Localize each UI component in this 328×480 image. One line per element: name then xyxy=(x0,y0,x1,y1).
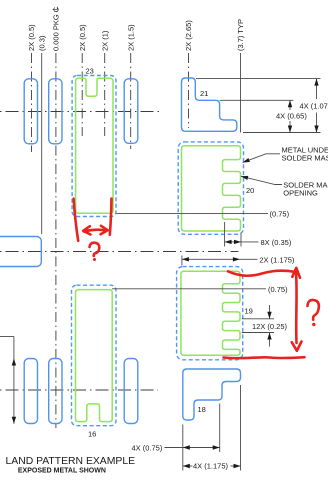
dimension left pad height leader xyxy=(0,337,16,424)
svg-text:21: 21 xyxy=(200,89,208,98)
metal pad 16 (green, notch at bottom) xyxy=(76,290,113,422)
wire: extension line from pad 21 step xyxy=(220,99,294,101)
wire: middle horizontal centerline xyxy=(0,251,239,253)
leader METAL UNDER SOLDER MASK xyxy=(243,145,328,162)
wire: extension line pad 18 right xyxy=(240,385,242,471)
svg-text:8X (0.35): 8X (0.35) xyxy=(261,238,292,247)
svg-text:12X (0.25): 12X (0.25) xyxy=(252,322,288,331)
wire: bottom row horizontal centerline xyxy=(0,389,158,391)
node (3.7) TYP extension line xyxy=(240,53,242,133)
svg-text:(0.75): (0.75) xyxy=(268,285,288,294)
pad top row 2 xyxy=(49,79,62,144)
node 2X (0.5) left centerline xyxy=(31,53,33,152)
red annotation: question mark right xyxy=(308,300,319,320)
svg-text:4X (1.075): 4X (1.075) xyxy=(300,101,328,110)
metal pad 23 (green, notch at top) xyxy=(76,78,113,213)
svg-text:23: 23 xyxy=(86,67,94,76)
red annotation: bottom squiggle xyxy=(224,357,305,358)
svg-text:4X (1.175): 4X (1.175) xyxy=(193,462,229,471)
wire: extension line from pad 21 bottom xyxy=(243,132,321,134)
dimension (0.75) lower xyxy=(112,285,288,294)
svg-text:19: 19 xyxy=(245,307,253,316)
dimension 4X (0.75) xyxy=(132,444,220,453)
red annotation: top squiggle right group xyxy=(228,271,295,276)
pad bottom row 2 xyxy=(49,359,62,424)
svg-text:2X (2.65): 2X (2.65) xyxy=(184,20,193,51)
svg-text:OPENING: OPENING xyxy=(283,189,318,198)
svg-text:2X (0.5): 2X (0.5) xyxy=(27,24,36,51)
node 2X (1) centerline xyxy=(104,53,106,136)
dimension 4X (1.075) xyxy=(300,79,328,133)
wire: extension line pad 18 step xyxy=(219,404,221,453)
pad bottom row 1 xyxy=(24,359,37,424)
pad 21 stepped corner (blue) xyxy=(182,78,237,131)
svg-text:16: 16 xyxy=(88,430,96,439)
dimension 8X (0.35) xyxy=(225,222,292,247)
svg-text:2X (1): 2X (1) xyxy=(100,30,109,51)
red annotation: question mark left xyxy=(90,243,100,256)
wire: extension line from pad 21 top edge xyxy=(196,78,321,80)
dimension 12X (0.25) xyxy=(242,305,288,347)
node 2X (2.65) centerline xyxy=(188,53,190,128)
solder mask opening 20 (dashed) xyxy=(178,142,243,234)
red annotation: vertical stroke xyxy=(295,272,298,343)
red annotation: up arrowhead xyxy=(292,268,300,278)
svg-text:20: 20 xyxy=(246,186,254,195)
node 2X (1.5) centerline xyxy=(130,53,132,149)
pad 18 stepped corner (blue) xyxy=(183,369,241,420)
solder mask opening 23 (dashed) xyxy=(72,76,116,217)
svg-text:4X (0.75): 4X (0.75) xyxy=(132,444,163,453)
wire: extension line pad 18 left xyxy=(182,425,184,471)
svg-text:(0.3): (0.3) xyxy=(37,35,46,51)
node 0.000 PKG centerline xyxy=(55,53,57,428)
leader SOLDER MASK OPENING xyxy=(241,176,328,198)
dimension 4X (0.65) xyxy=(276,100,307,132)
svg-text:(0.75): (0.75) xyxy=(270,209,290,218)
dimension 2X (1.175) xyxy=(182,255,295,265)
dimension 4X (1.175) xyxy=(183,462,241,471)
wire: top row horizontal centerline xyxy=(0,111,162,113)
svg-text:SOLDER MASK: SOLDER MASK xyxy=(282,153,328,162)
metal pad 20 (green, 3 castellations right) xyxy=(182,146,241,231)
svg-text:2X (0.5): 2X (0.5) xyxy=(78,24,87,51)
node 2X (0.5) mid centerline xyxy=(81,53,83,136)
dimension (0.75) upper xyxy=(116,209,289,218)
pad left edge horizontal xyxy=(0,237,41,267)
solder mask opening 16 (dashed) xyxy=(72,285,117,426)
pad bottom row 4 xyxy=(124,359,138,424)
svg-text:0.000 PKG: 0.000 PKG xyxy=(52,14,61,51)
svg-text:LAND PATTERN EXAMPLE: LAND PATTERN EXAMPLE xyxy=(6,456,136,467)
solder mask opening 19 (dashed) xyxy=(177,267,243,360)
node (0.3) extension line xyxy=(41,53,43,234)
svg-text:18: 18 xyxy=(198,405,206,414)
svg-text:EXPOSED METAL SHOWN: EXPOSED METAL SHOWN xyxy=(18,467,106,474)
svg-text:2X (1.175): 2X (1.175) xyxy=(259,255,295,264)
red annotation: down arrowhead xyxy=(292,342,302,351)
svg-text:2X (1.5): 2X (1.5) xyxy=(126,24,135,51)
svg-text:L: L xyxy=(51,6,60,10)
svg-text:4X (0.65): 4X (0.65) xyxy=(276,112,307,121)
red annotation: left tick of width query xyxy=(74,199,79,241)
metal pad 19 (green, 4 castellations right) xyxy=(181,271,240,355)
pad top row 1 xyxy=(24,79,37,144)
red annotation: right tick of width query xyxy=(110,199,112,235)
pad top row 4 xyxy=(124,79,138,144)
red annotation: double arrow xyxy=(84,230,107,232)
svg-text:(3.7) TYP: (3.7) TYP xyxy=(236,19,245,51)
